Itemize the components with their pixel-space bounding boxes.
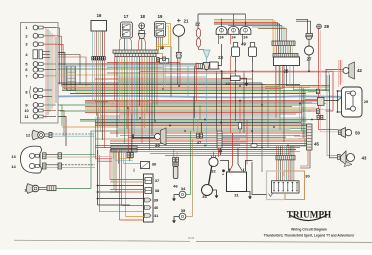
weave verticals below 22 [194, 66, 196, 118]
svg-text:25: 25 [225, 81, 230, 86]
coil feed verticals [218, 34, 220, 44]
power socket 28 [317, 24, 322, 29]
svg-text:18: 18 [140, 14, 145, 19]
wires below alternator [265, 66, 276, 85]
svg-text:12: 12 [26, 133, 31, 138]
alternator connector comb [272, 41, 295, 46]
regulator rectifier 44 [217, 131, 222, 148]
flasher unit 45 [307, 124, 313, 150]
svg-text:23: 23 [218, 55, 223, 60]
wires 26 down to harness [275, 66, 277, 119]
svg-text:39: 39 [154, 198, 159, 203]
plug connector above 27 [306, 34, 313, 36]
fuse 37 [145, 178, 152, 184]
svg-text:28: 28 [324, 24, 329, 29]
extra harness rows [120, 113, 296, 115]
connector block 30 [284, 171, 305, 176]
svg-text:34: 34 [181, 186, 186, 191]
wire 32 to harness [213, 152, 215, 158]
battery 31 [227, 172, 247, 192]
inline connector bead on harness row [251, 144, 257, 147]
teal wire down from 23 region [187, 66, 189, 97]
pink harness bundle top right [338, 60, 340, 87]
svg-text:21: 21 [184, 19, 189, 24]
green wire from position lamp 15 [90, 148, 92, 189]
connector 46 [173, 158, 176, 163]
vertical drops through harness center-right [206, 71, 208, 148]
svg-text:50: 50 [355, 131, 360, 136]
rear turn signal 43 [338, 155, 341, 160]
fuse feed verticals [119, 150, 121, 220]
svg-text:14: 14 [11, 164, 16, 169]
wires from block 16 [92, 31, 94, 57]
connector block 16 [91, 21, 107, 32]
red wire from 28 down to brake light 50 [319, 29, 338, 130]
main harness thick blue wire [58, 96, 342, 97]
inline fuse on feed wire [238, 123, 241, 130]
tail lamp unit 29 [342, 87, 363, 117]
wire into relay 36 [124, 163, 141, 165]
wires leaving harness connector [113, 152, 115, 159]
svg-text:TRIUMPH: TRIUMPH [287, 209, 331, 219]
svg-text:41: 41 [154, 213, 159, 218]
svg-text:49: 49 [241, 42, 246, 47]
main harness connector pair [111, 146, 137, 149]
svg-text:Thunderbird, Thunderbird Sport: Thunderbird, Thunderbird Sport, Legend T… [264, 234, 355, 238]
alternator wires [272, 46, 274, 54]
wire harness rows lower [95, 145, 307, 147]
svg-text:32: 32 [211, 169, 216, 174]
svg-text:13: 13 [11, 154, 16, 159]
svg-text:48: 48 [160, 46, 164, 50]
svg-text:16: 16 [97, 13, 102, 18]
wires below 45 [300, 150, 308, 166]
svg-text:19: 19 [158, 14, 163, 19]
svg-text:30: 30 [305, 174, 310, 179]
svg-text:42: 42 [357, 68, 362, 73]
wires from switches 17 18 19 to connector bar [120, 38, 123, 50]
svg-text:+: + [222, 173, 224, 177]
wire harness rows mid1 [85, 100, 322, 102]
wires down to rear turn signal 43 [327, 75, 337, 156]
starter motor 33 [202, 185, 213, 196]
svg-text:36: 36 [152, 161, 157, 166]
switch housing 19 [155, 22, 166, 38]
wire harness rows mid2 [95, 117, 307, 119]
instrument cluster box [21, 23, 59, 124]
fuse box [144, 174, 154, 222]
wire bundle from cluster to harness [58, 28, 60, 85]
svg-text:35: 35 [181, 208, 186, 213]
wire harness rows mid3 [95, 130, 307, 132]
svg-text:17: 17 [124, 14, 129, 19]
battery positive cable [220, 161, 229, 172]
svg-text:29: 29 [364, 100, 368, 104]
svg-text:37: 37 [155, 178, 160, 183]
orange wire loop from switch 19 [157, 24, 171, 58]
svg-text:40: 40 [154, 205, 159, 210]
connector stubs left rear [317, 115, 319, 119]
vertical bundle right of alternator [299, 86, 301, 125]
svg-text:43: 43 [362, 156, 367, 161]
handlebar connector bar [113, 50, 158, 53]
alternator 26 [274, 57, 300, 66]
relay 36 [141, 162, 150, 169]
main connector block left [67, 66, 75, 91]
svg-text:47: 47 [197, 140, 202, 145]
wires down to lamps 34 35 [190, 131, 192, 195]
short wires from cluster rows 4-5 [58, 55, 80, 85]
starter relay 27 [308, 39, 310, 46]
wires down to connector 30 [276, 146, 278, 156]
harness sleeve band [95, 100, 150, 102]
harness bundle below connector bar [114, 57, 116, 100]
elbow bundle right of headlamp [94, 132, 113, 157]
switch housing 17 [121, 22, 133, 38]
horn 42 [326, 69, 343, 91]
wire harness rows above blue line [107, 62, 180, 64]
pink feed wire row [140, 72, 330, 74]
top band to alternator connector [214, 20, 273, 42]
svg-text:45: 45 [314, 142, 319, 147]
svg-text:46: 46 [173, 184, 178, 189]
starter solenoid 32 [209, 157, 218, 166]
svg-text:20: 20 [155, 143, 160, 148]
horn 20 [133, 134, 155, 136]
black wire to 30 [252, 162, 267, 195]
brake light 50 [339, 130, 342, 135]
connector comb above 30 [276, 156, 295, 160]
fuse feed wires [120, 219, 144, 221]
tail lamp feed fork [324, 91, 342, 112]
small connector under switch 19 [163, 57, 166, 61]
tail lamp connectors [316, 89, 319, 94]
red feed wire row [140, 71, 333, 111]
svg-text:10: 10 [24, 108, 28, 113]
ignition coils 24 with cylinder numbers [216, 26, 227, 34]
svg-text:22-23: 22-23 [188, 237, 195, 240]
bottom rule [14, 240, 190, 241]
wire harness horizontal band upper [62, 84, 300, 86]
wires inside cluster box [45, 27, 47, 118]
battery ground [247, 192, 251, 195]
svg-text:7: 7 [25, 73, 27, 78]
svg-text:33: 33 [202, 194, 207, 199]
wire fuse22 to funnel [199, 47, 205, 49]
svg-text:31: 31 [234, 193, 239, 198]
ground return wires [98, 150, 145, 205]
svg-text:38: 38 [155, 188, 160, 193]
junction dots on harness [94, 100, 96, 102]
spade terminal 40 [145, 206, 152, 210]
black wire top link [198, 13, 246, 15]
fuse 38 [145, 188, 152, 194]
connector above relay 36 [127, 153, 130, 158]
connector funnel below 22 [203, 50, 210, 57]
starter cable [209, 166, 212, 186]
wires into 45 [290, 128, 307, 130]
spade terminal 41 [145, 214, 152, 218]
spade terminal 39 [145, 198, 152, 202]
svg-text:Wiring Circuit Diagram: Wiring Circuit Diagram [291, 228, 327, 232]
